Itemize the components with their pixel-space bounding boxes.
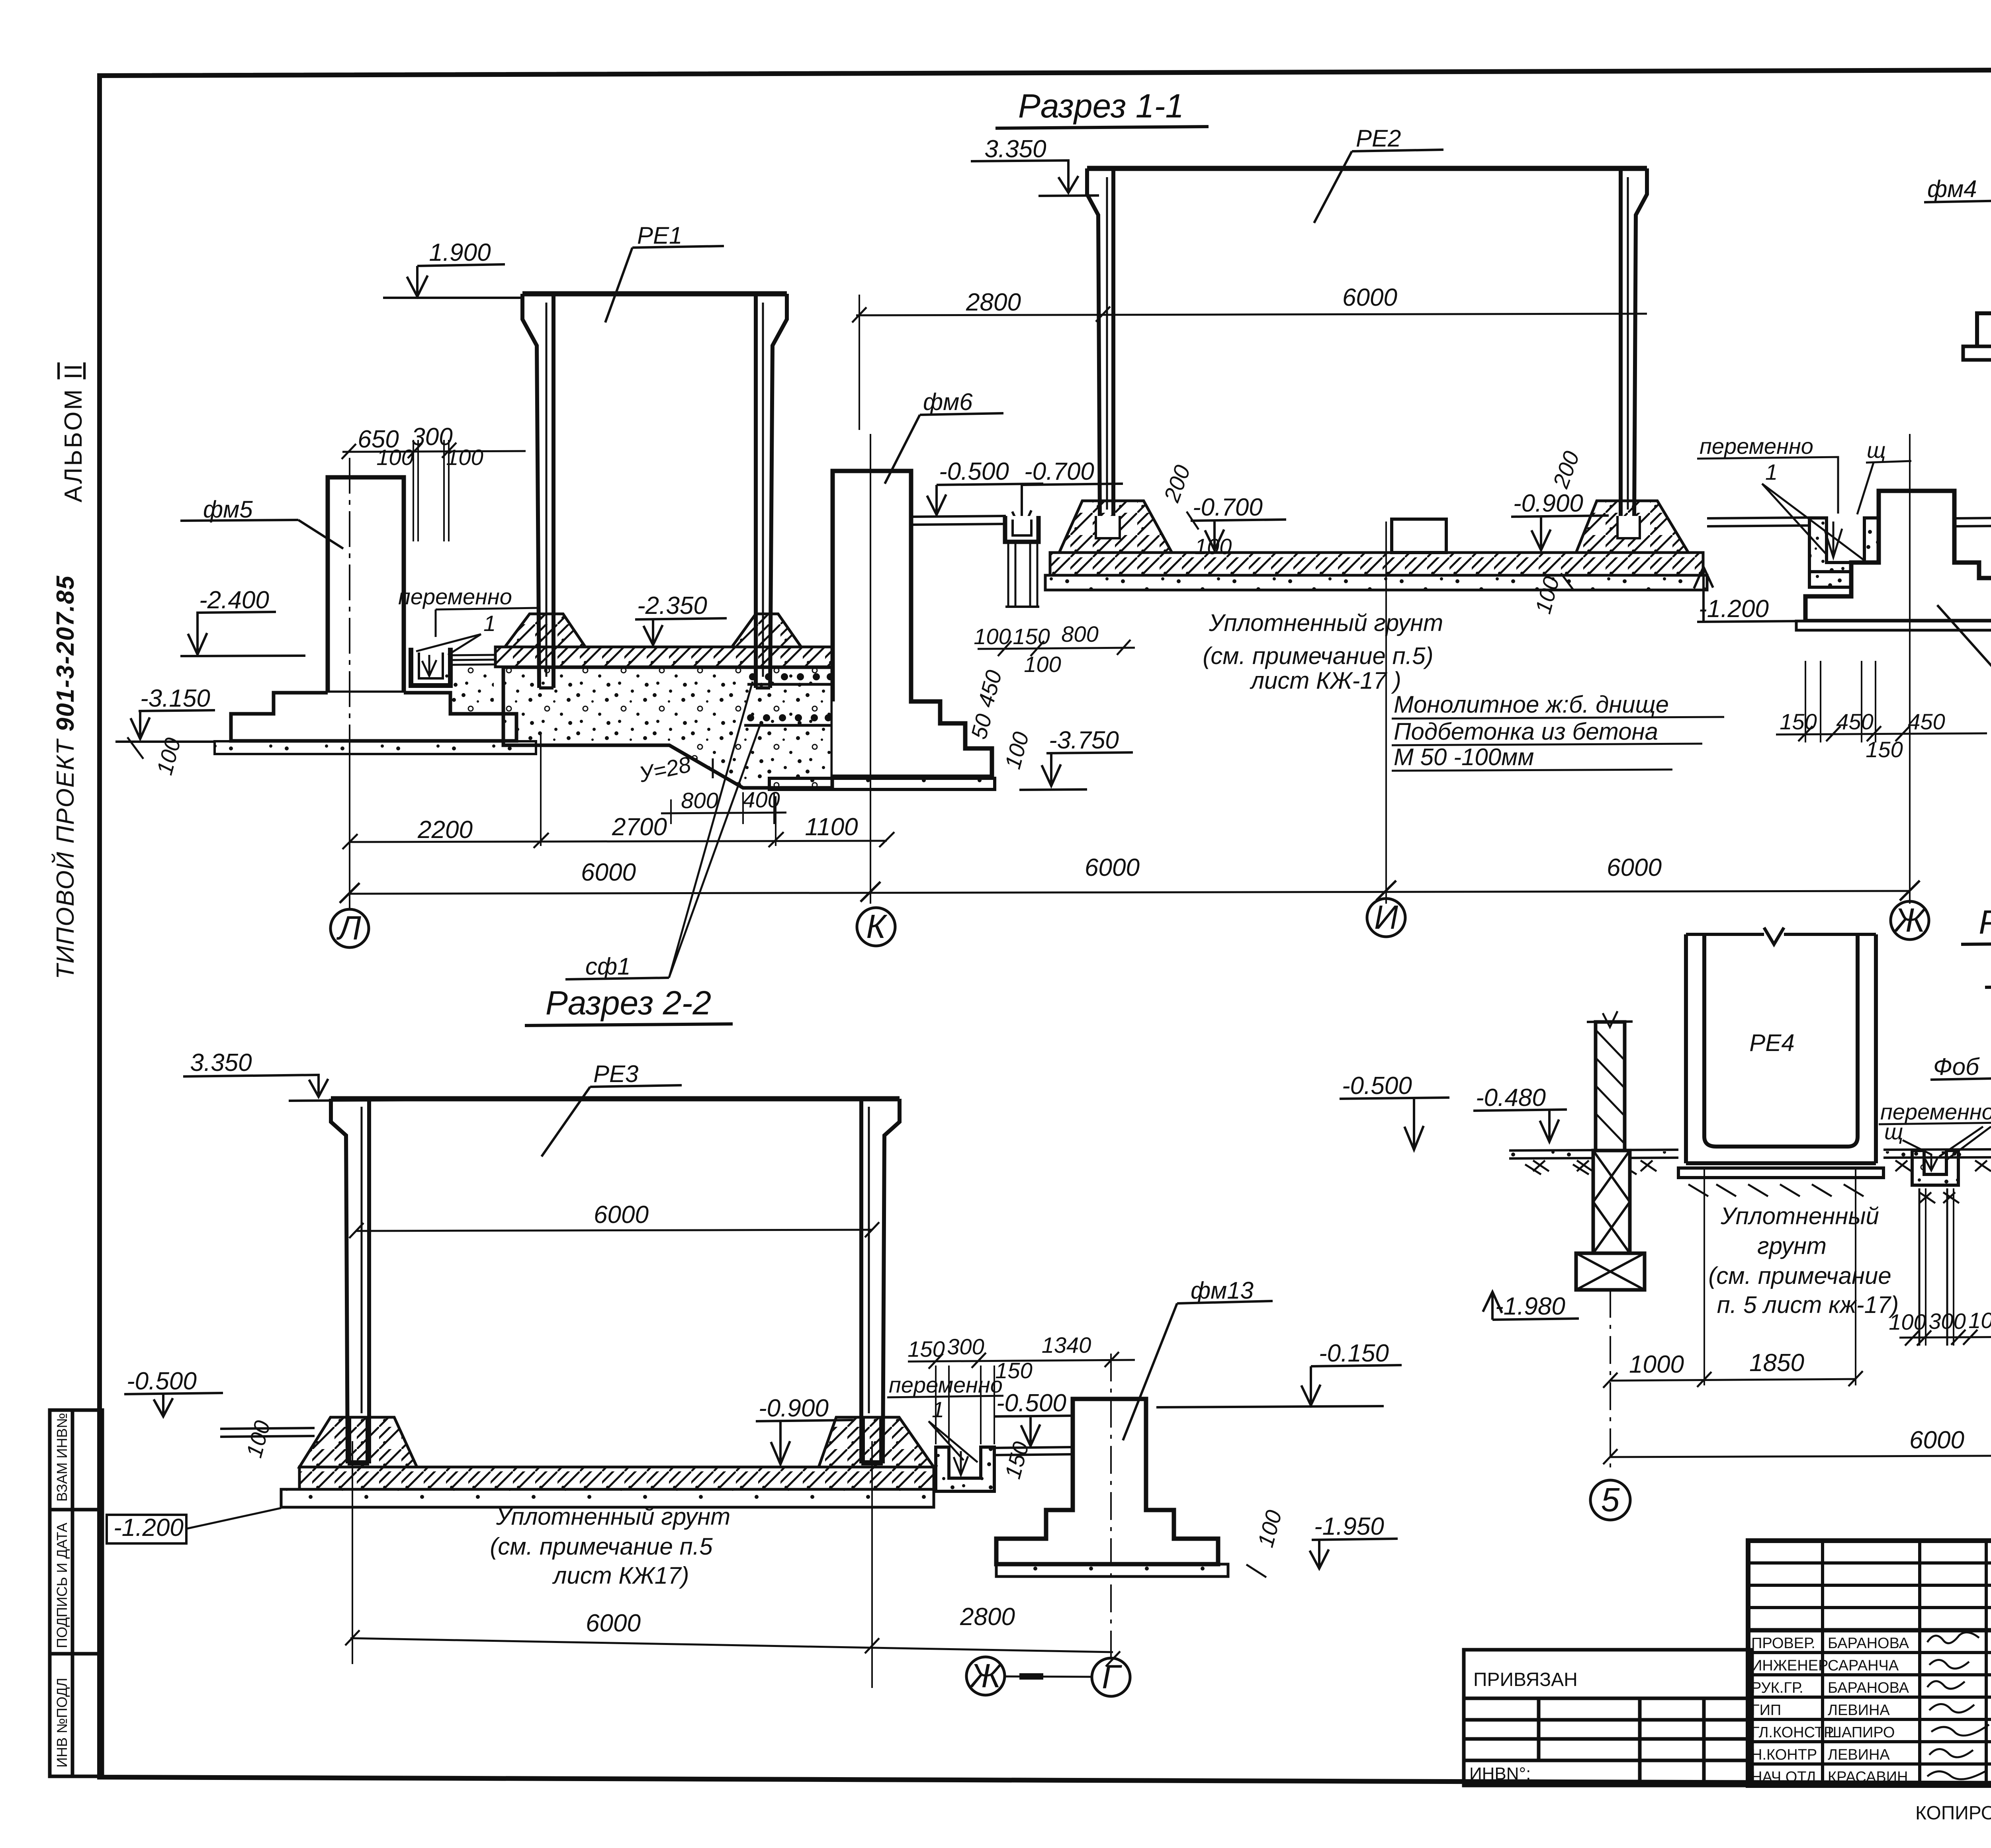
axis circle I — [1367, 899, 1405, 937]
trough 3-3 — [1912, 1151, 1958, 1185]
svg-text:3.350: 3.350 — [984, 135, 1046, 163]
svg-text:Разрез: Разрез — [1979, 903, 1991, 941]
svg-text:РЕ2: РЕ2 — [1356, 125, 1401, 152]
level -3.150 — [140, 685, 210, 712]
ground line right of FM6 — [911, 516, 1006, 525]
svg-text:НАЧ.ОТД.: НАЧ.ОТД. — [1751, 1769, 1821, 1785]
level -0.500 near FM6 — [939, 458, 1009, 485]
monolith note — [1394, 691, 1669, 770]
trough at FM12 — [1809, 518, 1879, 572]
svg-text:-0.150: -0.150 — [1319, 1340, 1389, 1367]
dims 100 150 800 100 — [974, 621, 1098, 677]
peremenno — [889, 1372, 1003, 1397]
dim 6000 — [1909, 1426, 1964, 1454]
left foundation box — [1576, 1253, 1645, 1290]
main title block outline — [1748, 1541, 1991, 1785]
svg-text:ИНВN°:: ИНВN°: — [1469, 1764, 1531, 1784]
svg-text:ЛЕВИНА: ЛЕВИНА — [1828, 1702, 1890, 1719]
left margin stamp boxes — [50, 1410, 102, 1776]
dims 150 300 1340 150 — [907, 1332, 1091, 1383]
foundation FM12 — [1805, 491, 1991, 621]
svg-text:-0.500: -0.500 — [939, 458, 1009, 485]
axis circle G — [1092, 1658, 1130, 1696]
svg-text:Разрез 2-2: Разрез 2-2 — [546, 984, 711, 1022]
svg-text:Г: Г — [1102, 1658, 1122, 1696]
dims 100 300 100 2000 — [1889, 1305, 1991, 1334]
soil ticks under pad — [1525, 1164, 1864, 1196]
svg-text:-0.500: -0.500 — [996, 1389, 1066, 1417]
svg-text:фм5: фм5 — [203, 496, 253, 523]
trough 2-2 — [936, 1447, 994, 1491]
svg-text:6000: 6000 — [1342, 284, 1397, 311]
200 rotated dim — [1159, 462, 1195, 506]
svg-text:-0.700: -0.700 — [1024, 458, 1094, 485]
svg-text:БАРАНОВА: БАРАНОВА — [1828, 1680, 1909, 1696]
interior dim 6000 — [594, 1201, 649, 1229]
pedestal on slab at axis I — [1392, 519, 1446, 553]
column wedge left PE1 — [505, 614, 585, 647]
level -1.200 — [1699, 595, 1769, 623]
tank PE4 — [1686, 934, 1858, 1163]
svg-text:6000: 6000 — [586, 1610, 641, 1637]
level -0.700 mid — [1193, 494, 1263, 521]
svg-text:2700: 2700 — [612, 813, 667, 841]
K axis line — [870, 434, 871, 904]
left pillar above ground — [1596, 1022, 1625, 1151]
level -0.900 — [759, 1395, 829, 1422]
rebar dots row 2 — [747, 714, 832, 721]
svg-text:-3.150: -3.150 — [140, 685, 210, 712]
section 3-3 title — [1979, 903, 1991, 983]
svg-text:М 50 -100мм: М 50 -100мм — [1394, 744, 1534, 770]
svg-text:ИНВ №ПОДЛ: ИНВ №ПОДЛ — [54, 1678, 70, 1768]
svg-text:-1.950: -1.950 — [1314, 1513, 1384, 1540]
svg-text:(см. примечание п.5: (см. примечание п.5 — [490, 1533, 713, 1560]
svg-text:6000: 6000 — [581, 859, 636, 886]
floor slab — [299, 1467, 934, 1489]
svg-text:-3.750: -3.750 — [1049, 727, 1119, 754]
svg-text:(см. примечание п.5): (см. примечание п.5) — [1203, 643, 1433, 669]
foundation FM5 — [328, 477, 404, 693]
section 2-2 title — [546, 984, 711, 1022]
label Fob — [1933, 1053, 1980, 1080]
ground right of PE4 — [1883, 1149, 1991, 1158]
level -1.980 — [1495, 1293, 1565, 1320]
svg-text:Уплотненный грунт: Уплотненный грунт — [1209, 609, 1443, 636]
dims 1000 1850 — [1629, 1349, 1804, 1378]
svg-text:ЛЕВИНА: ЛЕВИНА — [1828, 1746, 1890, 1763]
section 1-1 title — [1018, 87, 1184, 125]
100 rotated at slab right — [1530, 574, 1564, 617]
concrete mass under PE1 — [503, 667, 832, 788]
axis circle 5 — [1590, 1480, 1630, 1520]
label PE1 — [637, 222, 682, 249]
tank PE2 — [1087, 166, 1647, 171]
svg-text:3.350: 3.350 — [190, 1049, 252, 1076]
axis circle L — [331, 909, 369, 947]
svg-text:ПРОВЕР.: ПРОВЕР. — [1751, 1635, 1815, 1652]
trough near FM5 — [411, 648, 450, 686]
200 rotated right of PE2 head — [1548, 448, 1584, 492]
svg-text:(см. примечание: (см. примечание — [1708, 1262, 1891, 1289]
svg-text:ГИП: ГИП — [1751, 1702, 1781, 1719]
svg-text:5: 5 — [1601, 1481, 1620, 1518]
svg-text:-0.900: -0.900 — [759, 1395, 829, 1422]
dims 800 400 — [681, 787, 780, 813]
label FM5 — [203, 496, 253, 523]
svg-text:фм6: фм6 — [923, 389, 973, 415]
svg-text:800: 800 — [1061, 621, 1098, 647]
svg-text:-1.200: -1.200 — [1699, 595, 1769, 623]
level -0.500 — [1342, 1072, 1412, 1100]
svg-text:6000: 6000 — [1085, 854, 1140, 881]
personnel rows — [1748, 1561, 1991, 1565]
svg-text:1: 1 — [932, 1397, 944, 1422]
svg-text:Л: Л — [336, 909, 361, 947]
FM13 centerline — [1110, 1354, 1112, 1658]
level 1.900 — [429, 239, 491, 266]
level -3.750 — [1049, 727, 1119, 754]
svg-text:Уплотненный грунт: Уплотненный грунт — [496, 1503, 730, 1530]
bottom dims — [586, 1603, 1015, 1637]
svg-text:щ: щ — [1884, 1119, 1903, 1144]
svg-text:-0.480: -0.480 — [1476, 1084, 1546, 1112]
svg-text:ГЛ.КОНСТР: ГЛ.КОНСТР — [1751, 1724, 1834, 1741]
level -1.200 left of FM12 — [1697, 569, 1805, 622]
svg-text:-0.900: -0.900 — [1513, 490, 1583, 517]
svg-text:100: 100 — [974, 624, 1011, 649]
svg-text:100: 100 — [1968, 1308, 1991, 1333]
svg-text:ТИПОВОЙ ПРОЕКТ 901-3-207.85: ТИПОВОЙ ПРОЕКТ 901-3-207.85 — [51, 575, 79, 979]
ground left of PE4 — [1509, 1150, 1678, 1158]
svg-text:300: 300 — [947, 1334, 984, 1359]
svg-text:Фоб: Фоб — [1933, 1053, 1980, 1080]
svg-text:1: 1 — [483, 611, 496, 636]
svg-text:2800: 2800 — [966, 289, 1021, 316]
tank PE1 — [522, 291, 787, 297]
axis circle K — [857, 908, 895, 946]
wedges — [299, 1417, 417, 1467]
svg-text:щ: щ — [1867, 438, 1886, 463]
svg-text:грунт: грунт — [1757, 1233, 1827, 1259]
PE2 floor slab hatched — [1050, 553, 1703, 575]
svg-text:РЕ1: РЕ1 — [637, 222, 682, 249]
signatures squiggles — [1927, 1632, 1989, 1779]
label FM6 — [923, 389, 973, 415]
svg-text:6000: 6000 — [1909, 1426, 1964, 1454]
ground line left — [220, 1428, 315, 1437]
svg-text:Ж: Ж — [1893, 901, 1927, 939]
axis circle Zh bottom — [966, 1657, 1005, 1695]
svg-text:100: 100 — [1195, 534, 1232, 559]
ground between trough and FM13 — [994, 1447, 1073, 1455]
svg-text:И: И — [1374, 899, 1398, 936]
svg-text:ВЗАМ ИНВ№: ВЗАМ ИНВ№ — [54, 1413, 70, 1502]
Zh axis line center FM12 — [1909, 434, 1911, 904]
100 rotated under FM5 base — [152, 735, 186, 778]
svg-text:150: 150 — [1013, 624, 1050, 649]
svg-text:Уплотненный: Уплотненный — [1720, 1203, 1879, 1229]
tank PE3 — [331, 1096, 900, 1102]
peremenno 1 — [1880, 1099, 1991, 1124]
label SF1 — [585, 953, 631, 980]
thin layers right of trough — [450, 655, 494, 665]
axis L line through FM5 — [349, 458, 350, 909]
level -2.350 — [637, 592, 707, 619]
ground line left of trough12 — [1707, 518, 1809, 526]
svg-text:1850: 1850 — [1749, 1349, 1804, 1377]
level -0.500 left — [127, 1367, 197, 1395]
svg-text:лист КЖ17): лист КЖ17) — [552, 1562, 689, 1589]
dim 2800 6000 line — [966, 284, 1397, 316]
svg-text:РЕ3: РЕ3 — [593, 1061, 638, 1087]
svg-text:1.900: 1.900 — [429, 239, 491, 266]
svg-text:Подбетонка из бетона: Подбетонка из бетона — [1394, 718, 1658, 745]
svg-text:800: 800 — [681, 788, 718, 813]
level -0.480 — [1476, 1084, 1546, 1112]
foundation FM13 — [996, 1399, 1218, 1564]
soil text — [1203, 609, 1443, 694]
personnel table verticals — [1821, 1541, 1824, 1785]
svg-text:1100: 1100 — [805, 813, 858, 841]
peremenno right — [1700, 434, 1813, 459]
column wedge right PE1 — [732, 614, 801, 647]
svg-text:Разрез 1-1: Разрез 1-1 — [1018, 87, 1184, 125]
dims 50 450 rotated — [966, 668, 1034, 772]
svg-text:п. 5 лист кж-17): п. 5 лист кж-17) — [1717, 1291, 1899, 1318]
svg-text:ПОДПИСЬ И ДАТА: ПОДПИСЬ И ДАТА — [54, 1523, 70, 1648]
svg-text:Ж: Ж — [968, 1657, 1003, 1694]
level -0.150 — [1319, 1340, 1389, 1367]
svg-text:К: К — [866, 908, 888, 945]
svg-text:6000: 6000 — [594, 1201, 649, 1229]
svg-text:фм13: фм13 — [1191, 1277, 1254, 1304]
svg-text:-0.500: -0.500 — [127, 1367, 197, 1395]
svg-text:1340: 1340 — [1042, 1332, 1091, 1358]
svg-text:450: 450 — [1908, 709, 1945, 734]
base slab FM4 — [1963, 346, 1991, 360]
level -2.400 left — [199, 586, 269, 614]
I axis line — [1385, 522, 1387, 904]
dims 150 450 450 150 under FM12 — [1780, 709, 1945, 762]
svg-text:РУК.ГР.: РУК.ГР. — [1751, 1680, 1803, 1696]
svg-text:-1.200: -1.200 — [113, 1514, 184, 1541]
svg-text:-1.980: -1.980 — [1495, 1293, 1565, 1320]
svg-text:2800: 2800 — [960, 1603, 1015, 1631]
svg-text:150: 150 — [1780, 709, 1817, 734]
dims 2200 2700 1100 — [417, 813, 858, 844]
svg-text:6000: 6000 — [1607, 854, 1662, 881]
100 rotated at FM13 base — [1253, 1508, 1287, 1550]
svg-text:РЕ4: РЕ4 — [1749, 1029, 1794, 1056]
label FM13 — [1191, 1277, 1254, 1304]
axis circle Zh — [1891, 901, 1929, 940]
svg-text:-2.350: -2.350 — [637, 592, 707, 619]
150 rotated — [1000, 1439, 1034, 1482]
dims 650 300 100 100 — [358, 423, 483, 470]
svg-text:Монолитное ж:б. днище: Монолитное ж:б. днище — [1394, 691, 1669, 718]
stipple block right of trough — [445, 666, 494, 713]
level -0.700 at trough — [1024, 458, 1094, 485]
svg-text:САРАНЧА: САРАНЧА — [1828, 1657, 1899, 1674]
label PE3 — [593, 1061, 638, 1087]
svg-text:100: 100 — [1024, 652, 1061, 677]
svg-text:сф1: сф1 — [585, 953, 631, 980]
svg-text:лист КЖ-17 ): лист КЖ-17 ) — [1250, 667, 1401, 694]
svg-text:ПРИВЯЗАН: ПРИВЯЗАН — [1473, 1669, 1578, 1690]
svg-text:фм4: фм4 — [1927, 176, 1977, 202]
level -0.500 mid — [996, 1389, 1066, 1417]
main axis dim line — [581, 854, 1662, 886]
PE2 column wedges — [1059, 501, 1172, 553]
svg-text:2200: 2200 — [417, 816, 473, 844]
level 3.350 — [190, 1049, 252, 1076]
svg-text:БАРАНОВА: БАРАНОВА — [1828, 1635, 1909, 1652]
svg-text:-2.400: -2.400 — [199, 586, 269, 614]
svg-text:КОПИРОВАЛ· КОРШУНОВА: КОПИРОВАЛ· КОРШУНОВА — [1915, 1803, 1991, 1824]
level -1.200 boxed — [113, 1514, 184, 1541]
level -1.950 — [1314, 1513, 1384, 1540]
level -0.900 — [1513, 490, 1583, 517]
peremenno label — [398, 584, 512, 609]
slope label — [636, 750, 702, 787]
svg-text:ИНЖЕНЕР: ИНЖЕНЕР — [1751, 1657, 1828, 1674]
left pillar below ground X — [1593, 1151, 1630, 1253]
svg-text:1000: 1000 — [1629, 1351, 1684, 1378]
soil text 3-3 — [1708, 1203, 1899, 1318]
svg-text:КРАСАВИН: КРАСАВИН — [1828, 1769, 1908, 1785]
trough between FM6 and PE2 — [1005, 516, 1039, 542]
soil text 2-2 — [490, 1503, 730, 1589]
svg-text:Н.КОНТР: Н.КОНТР — [1751, 1746, 1817, 1763]
svg-text:переменно: переменно — [398, 584, 512, 609]
rebar dots row 1 — [749, 673, 834, 680]
svg-text:ШАПИРО: ШАПИРО — [1828, 1724, 1895, 1741]
svg-text:-0.500: -0.500 — [1342, 1072, 1412, 1100]
label PE2 — [1356, 125, 1401, 152]
svg-text:1: 1 — [1765, 459, 1778, 484]
concrete hatched band under PE1 — [495, 647, 832, 667]
svg-text:АЛЬБОМ II: АЛЬБОМ II — [60, 362, 87, 502]
svg-text:переменно: переменно — [1700, 434, 1813, 459]
level 3.350 — [984, 135, 1046, 163]
label FM4 — [1927, 176, 1977, 202]
Привязан table — [1464, 1650, 1752, 1785]
ground line right of FM12 — [1954, 518, 1991, 526]
100 rotated left — [241, 1418, 275, 1461]
svg-text:450: 450 — [1836, 709, 1873, 734]
svg-text:-0.700: -0.700 — [1193, 494, 1263, 521]
svg-text:переменно: переменно — [889, 1372, 1003, 1397]
foundation FM6 — [833, 471, 992, 777]
